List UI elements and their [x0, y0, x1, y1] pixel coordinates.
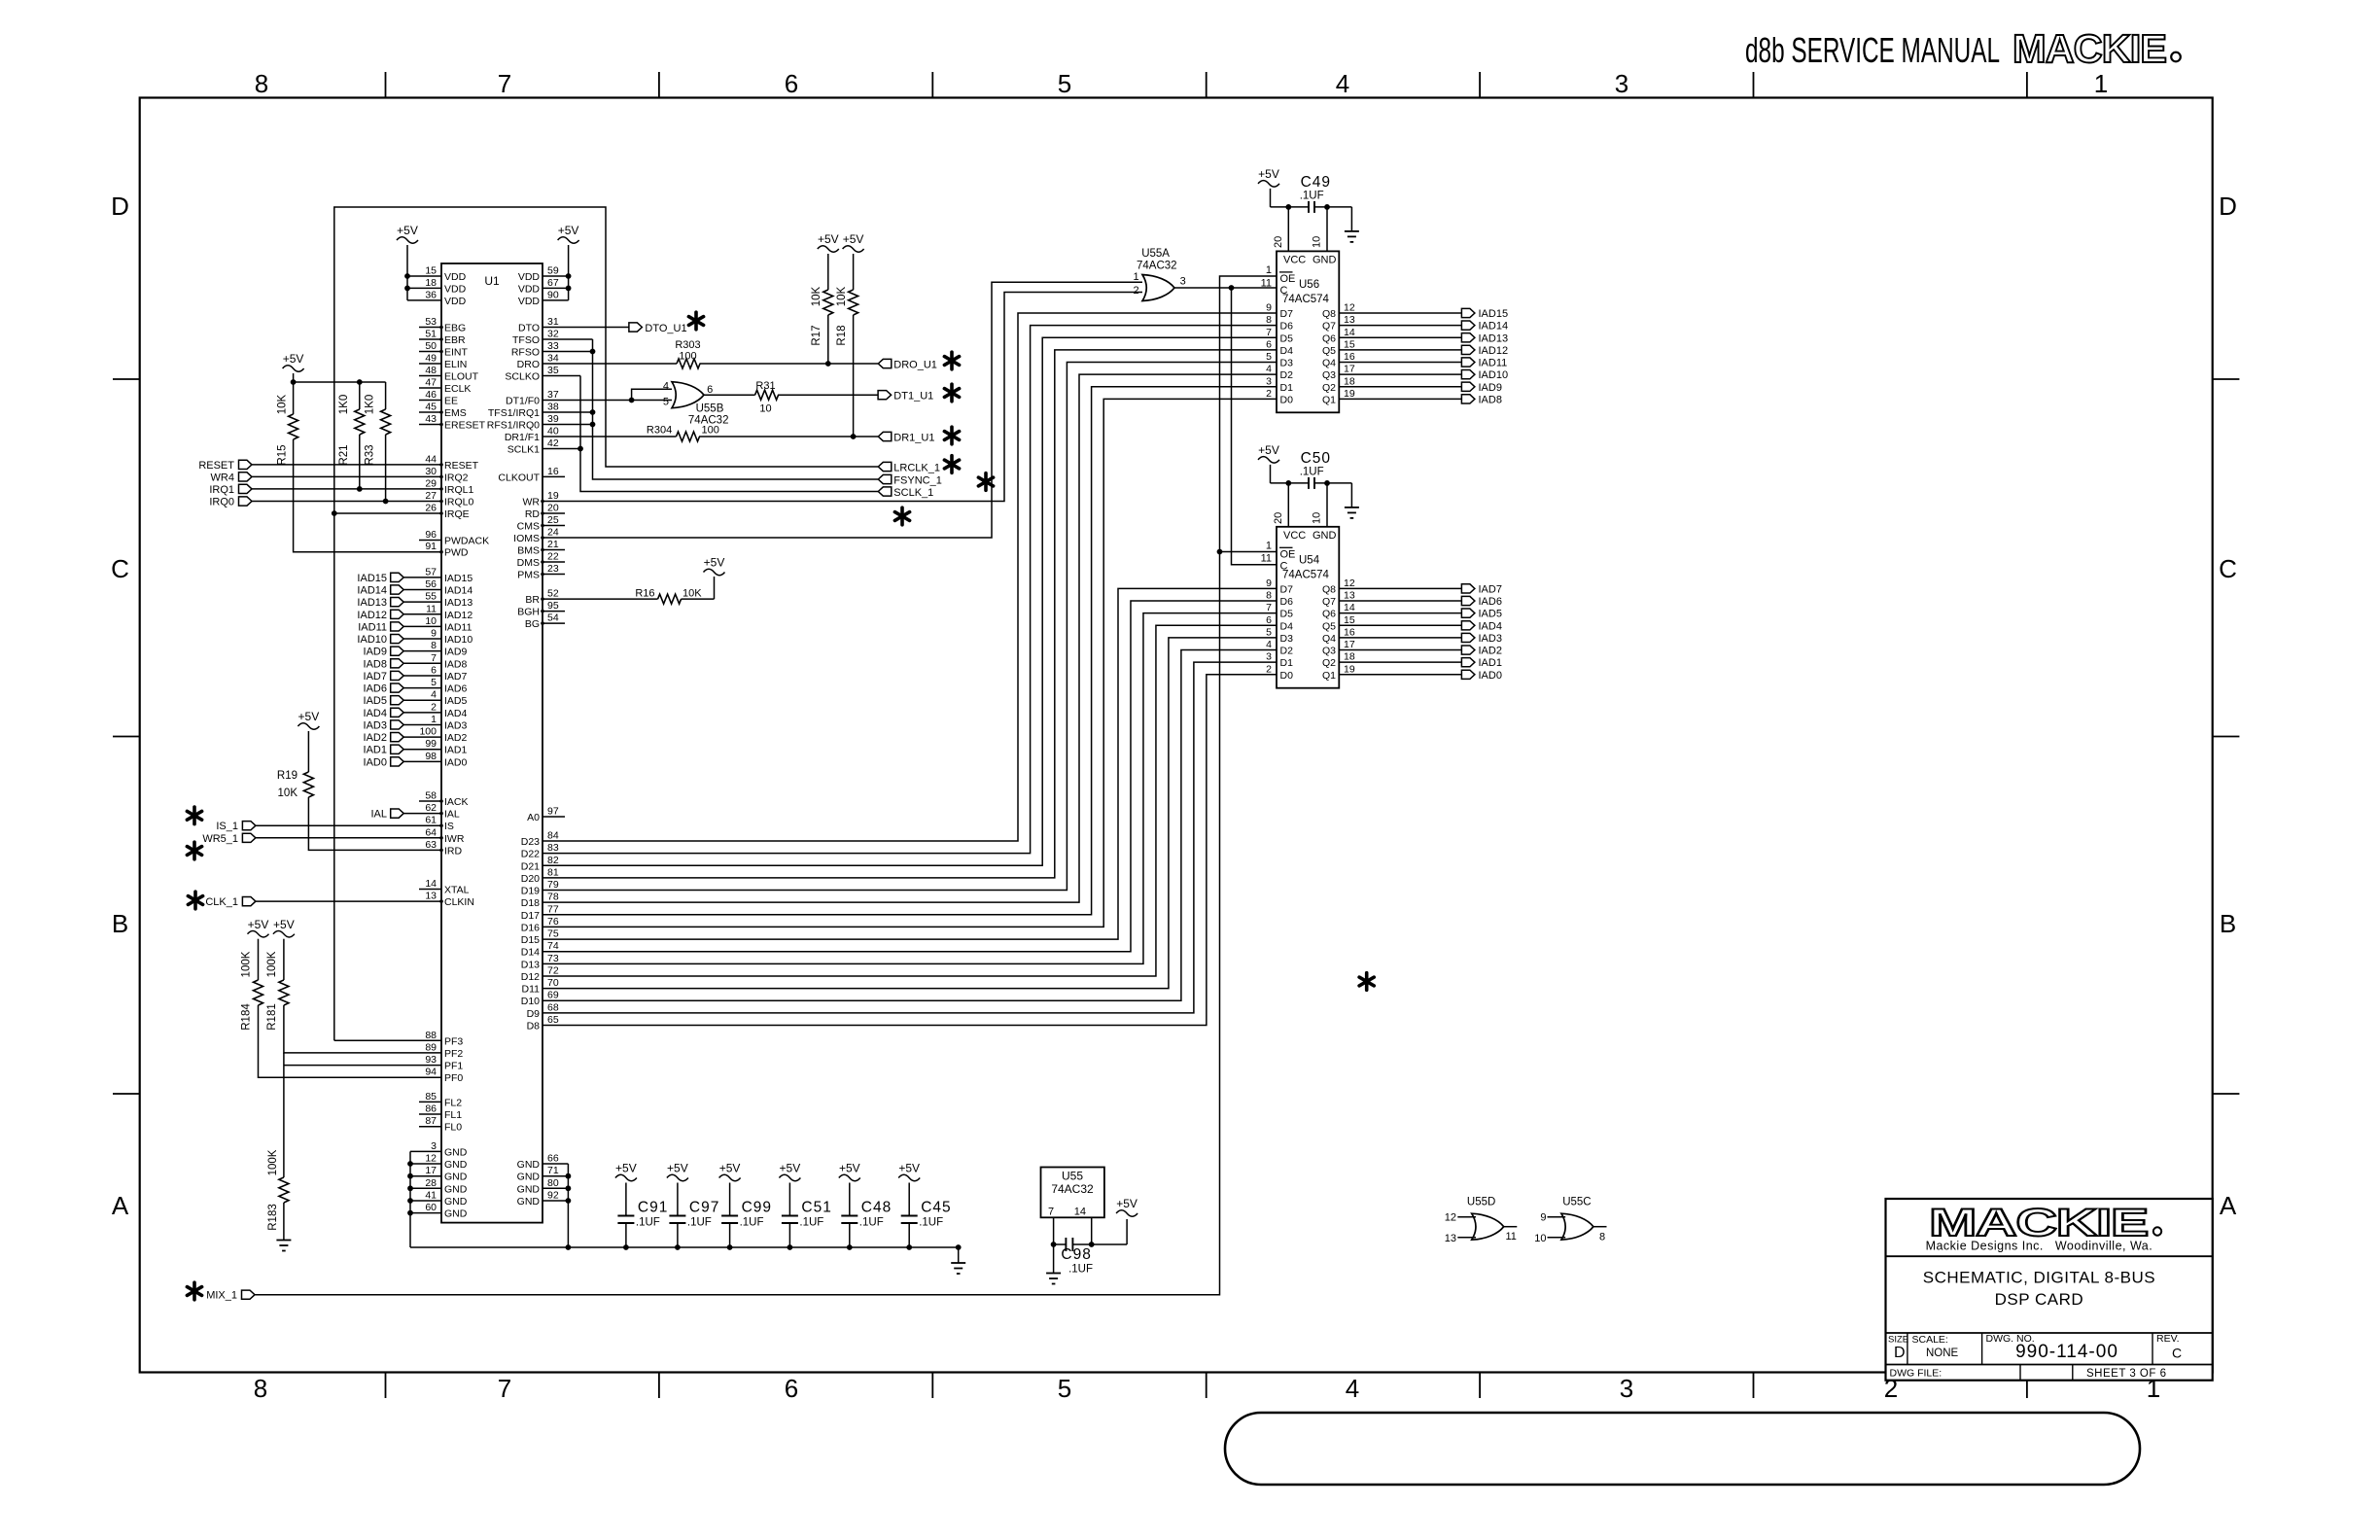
svg-text:Q7: Q7: [1322, 596, 1336, 608]
svg-text:20: 20: [547, 503, 559, 514]
svg-text:D4: D4: [1280, 345, 1294, 357]
svg-text:EBG: EBG: [444, 323, 466, 334]
svg-text:BMS: BMS: [517, 545, 540, 557]
svg-text:GND: GND: [517, 1183, 541, 1195]
wire R184 to U1 PF0: [259, 1013, 442, 1077]
svg-text:10K: 10K: [682, 588, 702, 600]
svg-text:IAD11: IAD11: [358, 621, 387, 633]
resistor R304 100: [647, 425, 719, 442]
svg-text:.1UF: .1UF: [636, 1217, 660, 1229]
svg-text:1: 1: [1133, 271, 1138, 283]
svg-text:66: 66: [547, 1153, 559, 1165]
svg-text:U55D: U55D: [1467, 1197, 1495, 1208]
svg-text:39: 39: [547, 413, 559, 425]
svg-text:1K0: 1K0: [365, 395, 376, 414]
svg-text:SHEET 3 OF 6: SHEET 3 OF 6: [2086, 1368, 2166, 1380]
svg-text:88: 88: [425, 1030, 437, 1041]
svg-text:D2: D2: [1280, 646, 1294, 657]
svg-text:PF0: PF0: [444, 1072, 463, 1084]
capacitor C99 .1UF: [721, 1200, 772, 1248]
svg-text:40: 40: [547, 426, 559, 437]
svg-text:DR1_U1: DR1_U1: [893, 432, 934, 443]
svg-text:5: 5: [663, 396, 669, 407]
+5V supply for C91: [615, 1162, 637, 1216]
svg-text:IAD10: IAD10: [357, 634, 387, 646]
svg-text:D: D: [111, 192, 129, 221]
svg-text:65: 65: [547, 1014, 559, 1026]
svg-text:48: 48: [425, 365, 437, 376]
svg-text:U1: U1: [484, 274, 500, 288]
wire R183 to ground: [283, 1209, 285, 1241]
U56 D and Q pin labels: [1266, 302, 1355, 406]
flag WR4: [211, 472, 252, 483]
svg-text:Q5: Q5: [1322, 620, 1336, 632]
+5V supply for R17: [818, 232, 839, 280]
svg-text:10: 10: [1312, 512, 1323, 524]
svg-text:68: 68: [547, 1001, 559, 1013]
svg-text:IAD0: IAD0: [364, 756, 387, 768]
svg-text:WR: WR: [523, 497, 541, 508]
svg-text:25: 25: [547, 514, 559, 526]
+5V supply for C45: [898, 1162, 920, 1216]
svg-text:IAD11: IAD11: [444, 621, 472, 633]
svg-text:IAL: IAL: [444, 809, 460, 821]
flag CLK_1: [205, 896, 256, 908]
capacitor C51 .1UF: [782, 1200, 832, 1248]
svg-text:IAD13: IAD13: [444, 597, 472, 609]
svg-text:75: 75: [547, 928, 559, 940]
svg-text:3: 3: [1615, 69, 1628, 98]
wire U1 IOMS to U55A input 1: [542, 282, 1142, 538]
wire R19 to U1 IRD pin 63: [308, 813, 441, 850]
svg-text:22: 22: [547, 551, 559, 563]
svg-text:3: 3: [1180, 276, 1186, 288]
svg-text:IAD9: IAD9: [1479, 382, 1502, 394]
svg-text:47: 47: [425, 377, 437, 389]
svg-text:GND: GND: [517, 1159, 541, 1171]
svg-text:R16: R16: [635, 588, 654, 600]
svg-text:DTO_U1: DTO_U1: [645, 323, 686, 334]
svg-text:10K: 10K: [811, 286, 822, 306]
flag DT1_U1: [878, 391, 933, 402]
svg-text:7: 7: [1266, 602, 1272, 613]
svg-text:GND: GND: [444, 1208, 468, 1220]
svg-text:A: A: [112, 1191, 129, 1220]
svg-text:5: 5: [1266, 351, 1272, 363]
svg-text:Q2: Q2: [1322, 657, 1336, 669]
svg-text:20: 20: [1273, 512, 1284, 524]
svg-text:49: 49: [425, 353, 437, 365]
svg-text:12: 12: [1445, 1212, 1456, 1224]
svg-text:+5V: +5V: [1116, 1197, 1137, 1210]
svg-text:2: 2: [431, 701, 437, 713]
svg-text:.1UF: .1UF: [919, 1217, 943, 1229]
svg-text:74AC574: 74AC574: [1282, 569, 1330, 580]
svg-text:8: 8: [1266, 314, 1272, 326]
svg-text:IAD0: IAD0: [1479, 670, 1502, 682]
svg-text:VDD: VDD: [444, 271, 467, 283]
svg-text:IAD12: IAD12: [357, 610, 387, 621]
sheet border frame: [113, 72, 2239, 1398]
svg-text:92: 92: [547, 1190, 559, 1202]
svg-text:9: 9: [1266, 302, 1272, 314]
U1 stub-only pins: [419, 328, 565, 1127]
+5V supply for R15 R21 R33: [283, 352, 304, 382]
svg-text:D10: D10: [521, 996, 540, 1007]
svg-text:5: 5: [1058, 1374, 1071, 1403]
svg-text:EE: EE: [444, 396, 458, 407]
svg-text:ELOUT: ELOUT: [444, 371, 479, 383]
svg-text:D14: D14: [521, 947, 540, 959]
svg-text:8: 8: [1599, 1232, 1605, 1243]
svg-text:10: 10: [425, 615, 437, 627]
svg-text:IAD2: IAD2: [444, 732, 468, 744]
svg-text:BGH: BGH: [517, 607, 540, 618]
svg-text:50: 50: [425, 340, 437, 352]
svg-text:15: 15: [1344, 614, 1355, 626]
U56 Q output wires and flags: [1339, 308, 1508, 405]
svg-text:13: 13: [425, 891, 437, 902]
svg-text:11: 11: [1261, 553, 1272, 565]
svg-text:SCHEMATIC, DIGITAL 8-BUS: SCHEMATIC, DIGITAL 8-BUS: [1923, 1269, 2155, 1287]
svg-text:7: 7: [1266, 327, 1272, 338]
svg-text:D0: D0: [1280, 394, 1294, 405]
svg-text:10: 10: [759, 403, 771, 415]
capacitor C48 .1UF: [841, 1200, 892, 1248]
svg-text:100K: 100K: [241, 951, 253, 977]
svg-text:38: 38: [547, 402, 559, 413]
svg-text:C45: C45: [921, 1200, 951, 1216]
svg-text:13: 13: [1344, 590, 1355, 602]
svg-text:IACK: IACK: [444, 796, 469, 808]
wire U55A output to U56 C and U54 C: [1174, 285, 1277, 565]
svg-text:D15: D15: [521, 934, 540, 946]
asterisk DTO_U1: [688, 312, 703, 330]
svg-text:67: 67: [547, 277, 559, 289]
svg-text:DTO: DTO: [518, 323, 540, 334]
svg-text:D6: D6: [1280, 596, 1294, 608]
svg-text:.1UF: .1UF: [1300, 466, 1324, 477]
svg-text:7: 7: [498, 1374, 511, 1403]
asterisk IS_1: [187, 807, 201, 824]
svg-text:XTAL: XTAL: [444, 885, 470, 896]
svg-text:35: 35: [547, 365, 559, 376]
svg-text:D13: D13: [521, 959, 540, 970]
svg-text:D9: D9: [527, 1008, 541, 1020]
wire CLK_1 to U1 CLKIN pin 13: [256, 900, 441, 902]
svg-text:26: 26: [425, 503, 437, 514]
svg-text:IAD5: IAD5: [364, 695, 387, 707]
svg-text:17: 17: [1344, 364, 1355, 375]
svg-text:8: 8: [255, 69, 268, 98]
svg-text:6: 6: [1266, 614, 1272, 626]
svg-text:57: 57: [425, 566, 437, 577]
svg-text:10K: 10K: [836, 286, 848, 306]
svg-text:59: 59: [547, 265, 559, 277]
svg-text:18: 18: [1344, 375, 1355, 387]
svg-text:CLKIN: CLKIN: [444, 896, 474, 908]
svg-text:8: 8: [254, 1374, 267, 1403]
svg-text:GND: GND: [517, 1172, 541, 1183]
svg-text:10K: 10K: [277, 394, 289, 414]
flag IAL: [370, 809, 403, 821]
svg-text:C51: C51: [801, 1200, 831, 1216]
wire C49 VCC/GND pin leads: [1273, 207, 1327, 252]
svg-text:81: 81: [547, 866, 559, 878]
svg-text:LRCLK_1: LRCLK_1: [893, 462, 940, 473]
svg-text:IAD10: IAD10: [444, 634, 472, 646]
svg-text:DSP CARD: DSP CARD: [1995, 1290, 2084, 1309]
svg-text:1K0: 1K0: [338, 395, 350, 414]
svg-text:44: 44: [425, 453, 437, 465]
svg-text:RFS1/IRQ0: RFS1/IRQ0: [487, 420, 540, 432]
ground below R183: [276, 1240, 291, 1242]
svg-text:93: 93: [425, 1054, 437, 1066]
svg-text:Q1: Q1: [1322, 394, 1336, 405]
wire U55 pin14 +5V: [1089, 1217, 1127, 1247]
svg-text:2: 2: [1133, 285, 1138, 297]
svg-text:R183: R183: [267, 1204, 279, 1231]
wire IRQ0 to U1 IRQL0: [252, 499, 441, 505]
svg-text:32: 32: [547, 329, 559, 340]
svg-text:5: 5: [431, 677, 437, 688]
svg-text:IAD2: IAD2: [364, 732, 387, 744]
svg-text:1: 1: [431, 714, 437, 725]
svg-text:IAD12: IAD12: [444, 610, 472, 621]
svg-text:77: 77: [547, 903, 559, 915]
svg-text:MACKIE: MACKIE: [1929, 1202, 2148, 1244]
svg-text:+5V: +5V: [615, 1162, 637, 1175]
svg-text:IAD4: IAD4: [364, 708, 387, 719]
wire +5V rail to R21 R33: [291, 379, 386, 385]
svg-text:PWDACK: PWDACK: [444, 536, 489, 547]
svg-text:TFSO: TFSO: [512, 334, 540, 346]
wire WR4 to U1 IRQ2: [252, 475, 441, 477]
svg-text:.1UF: .1UF: [1068, 1264, 1093, 1276]
asterisk WR5_1: [187, 842, 201, 859]
svg-text:IRQL0: IRQL0: [444, 497, 474, 508]
svg-text:Q7: Q7: [1322, 321, 1336, 332]
svg-text:6: 6: [1266, 338, 1272, 350]
+5V supply for C51: [779, 1162, 800, 1216]
svg-text:4: 4: [1336, 69, 1349, 98]
svg-text:DRO: DRO: [517, 359, 540, 370]
svg-text:PF3: PF3: [444, 1035, 463, 1047]
svg-text:D7: D7: [1280, 583, 1294, 595]
svg-text:D3: D3: [1280, 358, 1294, 369]
svg-text:RESET: RESET: [198, 460, 234, 472]
svg-text:74: 74: [547, 940, 559, 952]
U54 Q output wires and flags: [1339, 583, 1502, 681]
capacitor C91 .1UF: [617, 1200, 668, 1248]
svg-text:U56: U56: [1299, 279, 1319, 291]
svg-text:74AC32: 74AC32: [1137, 261, 1177, 272]
svg-text:20: 20: [1273, 236, 1284, 248]
svg-text:VDD: VDD: [518, 283, 541, 295]
svg-text:IAD4: IAD4: [1479, 620, 1502, 632]
svg-text:19: 19: [1344, 388, 1355, 400]
svg-text:IAD2: IAD2: [1479, 646, 1502, 657]
svg-text:C: C: [2172, 1346, 2182, 1361]
svg-text:12: 12: [1344, 577, 1355, 589]
svg-text:VCC: VCC: [1283, 254, 1306, 265]
svg-text:PF2: PF2: [444, 1048, 463, 1060]
asterisk LRCLK_1: [944, 456, 959, 473]
svg-text:91: 91: [425, 541, 437, 552]
svg-text:IAD5: IAD5: [444, 695, 468, 707]
svg-text:IAD3: IAD3: [444, 719, 468, 731]
svg-text:IOMS: IOMS: [513, 533, 540, 544]
svg-text:GND: GND: [444, 1196, 468, 1207]
svg-text:IAD6: IAD6: [364, 683, 387, 695]
svg-text:D20: D20: [521, 873, 540, 885]
bus wires U1 D15-D8 to U54 D7-D0: [542, 588, 1277, 1025]
svg-text:U55: U55: [1062, 1170, 1083, 1183]
svg-text:CMS: CMS: [517, 521, 540, 533]
capacitor C50 .1UF: [1271, 450, 1352, 489]
svg-text:5: 5: [1058, 69, 1071, 98]
svg-text:IRQ0: IRQ0: [209, 497, 234, 508]
svg-text:17: 17: [425, 1165, 437, 1176]
asterisk FSYNC_1: [978, 473, 993, 491]
IC U55 74AC32 power block: [1041, 1168, 1104, 1218]
svg-text:ERESET: ERESET: [444, 420, 486, 432]
svg-text:Q8: Q8: [1322, 308, 1336, 320]
wire U1 BR to R16: [542, 577, 715, 599]
svg-text:100: 100: [419, 726, 437, 738]
svg-text:Q8: Q8: [1322, 583, 1336, 595]
OR gate U55D 74AC32 spare: [1445, 1197, 1518, 1245]
svg-text:GND: GND: [444, 1146, 468, 1158]
svg-text:69: 69: [547, 990, 559, 1001]
capacitor C97 .1UF: [669, 1200, 719, 1248]
ground for C49: [1345, 230, 1359, 232]
svg-text:Q3: Q3: [1322, 369, 1336, 381]
svg-text:R33: R33: [365, 444, 376, 465]
svg-text:+5V: +5V: [298, 710, 320, 723]
wire IS_1 to U1 IS pin 61: [256, 824, 441, 826]
svg-text:+5V: +5V: [397, 224, 418, 237]
ground symbol for rail: [951, 1247, 965, 1274]
svg-text:IAD6: IAD6: [1479, 596, 1502, 608]
svg-text:83: 83: [547, 842, 559, 854]
svg-text:D5: D5: [1280, 609, 1294, 620]
svg-text:+5V: +5V: [780, 1162, 801, 1175]
svg-text:30: 30: [425, 466, 437, 477]
+5V supply for C50: [1258, 443, 1279, 483]
svg-text:87: 87: [425, 1115, 437, 1127]
svg-text:R31: R31: [755, 380, 775, 392]
wire U1 right GND bracket: [542, 1164, 571, 1247]
svg-text:+5V: +5V: [248, 918, 269, 931]
flag IRQ1: [209, 484, 252, 496]
svg-text:R21: R21: [338, 444, 350, 465]
svg-text:52: 52: [547, 588, 559, 600]
resistor R33 1K0: [365, 382, 391, 502]
svg-text:.1UF: .1UF: [740, 1217, 764, 1229]
svg-text:+5V: +5V: [704, 556, 725, 570]
svg-text:U55C: U55C: [1562, 1197, 1591, 1208]
svg-text:FL0: FL0: [444, 1122, 462, 1134]
svg-text:R15: R15: [277, 444, 289, 465]
title block frame: [1886, 1199, 2213, 1381]
svg-text:IAD0: IAD0: [444, 756, 468, 768]
svg-text:.1UF: .1UF: [1300, 190, 1324, 201]
svg-text:.1UF: .1UF: [687, 1217, 712, 1229]
svg-text:36: 36: [425, 289, 437, 300]
svg-text:11: 11: [1506, 1231, 1517, 1242]
svg-text:15: 15: [425, 265, 437, 277]
svg-text:DT1/F0: DT1/F0: [506, 396, 540, 407]
flag IS_1: [216, 821, 256, 832]
+5V supply for R19: [297, 710, 319, 762]
svg-text:DT1_U1: DT1_U1: [893, 391, 933, 402]
svg-text:IAD10: IAD10: [1479, 369, 1509, 381]
+5V supply for R18: [843, 232, 864, 280]
svg-text:B: B: [2220, 909, 2236, 938]
wire R18 to DR1 net: [853, 321, 855, 437]
svg-text:IAD11: IAD11: [1479, 358, 1508, 369]
svg-text:85: 85: [425, 1091, 437, 1102]
svg-text:Q5: Q5: [1322, 345, 1336, 357]
svg-text:6: 6: [785, 1374, 798, 1403]
svg-text:D: D: [1894, 1345, 1906, 1361]
svg-text:SCLK_1: SCLK_1: [893, 487, 933, 499]
svg-text:U54: U54: [1299, 554, 1320, 566]
svg-text:SIZE: SIZE: [1888, 1335, 1908, 1346]
svg-text:REV.: REV.: [2156, 1333, 2180, 1345]
svg-text:21: 21: [547, 539, 559, 550]
svg-text:MACKIE: MACKIE: [2012, 26, 2166, 71]
capacitor C45 .1UF: [901, 1200, 952, 1248]
+5V supply for C99: [719, 1162, 741, 1216]
svg-text:11: 11: [426, 603, 437, 614]
svg-text:14: 14: [1344, 327, 1355, 338]
svg-text:41: 41: [425, 1190, 437, 1202]
svg-text:79: 79: [547, 879, 559, 891]
svg-text:A0: A0: [527, 812, 540, 823]
svg-text:IAD1: IAD1: [444, 745, 468, 756]
svg-text:95: 95: [547, 600, 559, 612]
svg-text:29: 29: [425, 477, 437, 489]
svg-text:+5V: +5V: [558, 224, 579, 237]
svg-text:R18: R18: [836, 325, 848, 345]
svg-text:IAD9: IAD9: [444, 647, 468, 658]
svg-text:C97: C97: [689, 1200, 719, 1216]
resistor R15 10K: [277, 382, 298, 466]
svg-text:VDD: VDD: [444, 296, 467, 307]
svg-text:1: 1: [1266, 264, 1272, 276]
svg-text:64: 64: [425, 826, 437, 838]
capacitor C98 .1UF: [1054, 1238, 1128, 1276]
U54 D and Q pin labels: [1266, 577, 1355, 682]
svg-text:16: 16: [547, 466, 559, 477]
svg-text:IAD7: IAD7: [364, 671, 387, 682]
svg-text:IAD14: IAD14: [357, 585, 387, 597]
svg-text:C: C: [2219, 554, 2237, 583]
resistor R17 10K: [811, 280, 833, 346]
wire U1 DR1/F1 through R304 to DR1_U1: [542, 434, 878, 439]
svg-text:GND: GND: [444, 1183, 468, 1195]
flag DTO_U1: [629, 323, 687, 334]
flag MIX_1: [206, 1290, 255, 1302]
svg-text:VCC: VCC: [1283, 530, 1306, 542]
svg-text:EBR: EBR: [444, 334, 466, 346]
svg-text:IAD8: IAD8: [364, 658, 387, 670]
svg-text:19: 19: [1344, 663, 1355, 675]
svg-text:Q1: Q1: [1322, 670, 1336, 682]
DSP U1 body: [441, 263, 542, 1223]
